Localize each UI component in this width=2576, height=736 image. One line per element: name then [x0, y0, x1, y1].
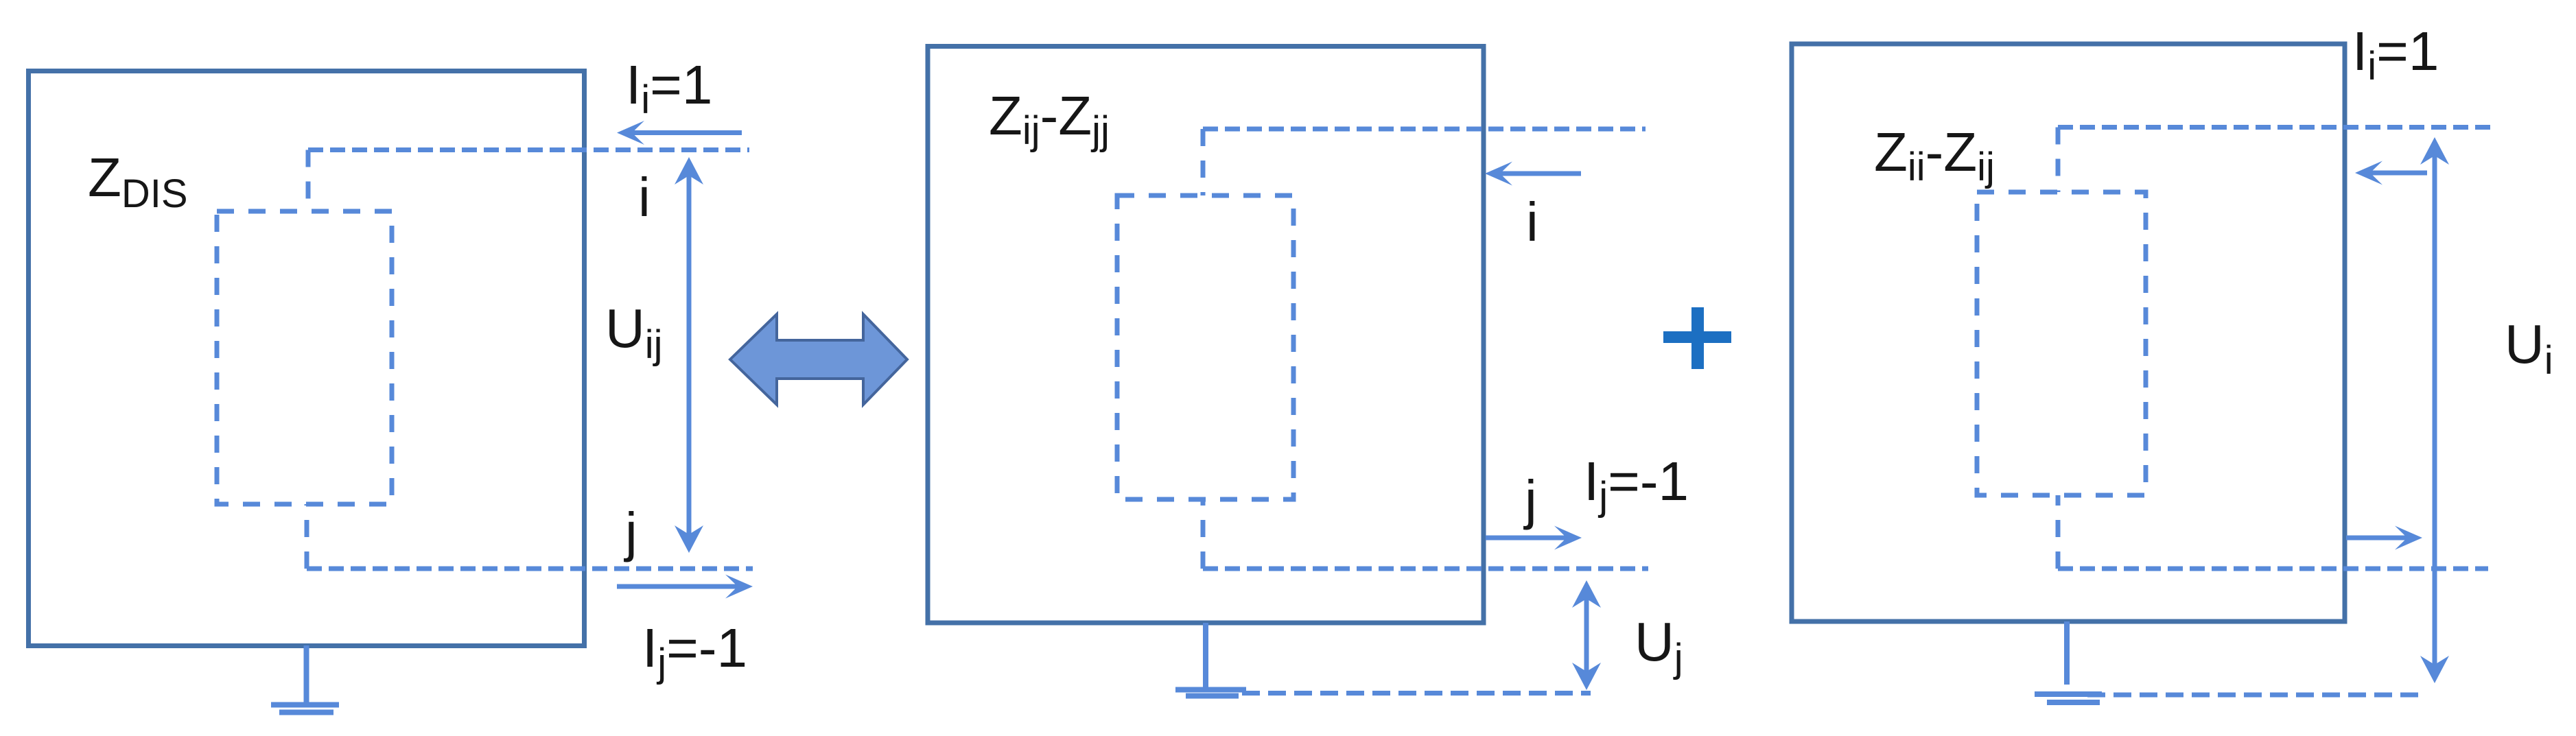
current arrow Ij box 1 [617, 584, 738, 589]
wire node j (dashed) box 3 [2056, 495, 2061, 569]
equivalence double arrow [730, 314, 907, 405]
current arrow i box 3 [2369, 171, 2427, 176]
inner dashed sub-network box 3 [1977, 192, 2146, 495]
wire node i (dashed) box 2 [1203, 127, 1646, 132]
wire ground reference (dashed) box 3 [2087, 693, 2424, 698]
inner dashed sub-network box 1 [217, 211, 392, 504]
current arrow j box 2 [1486, 536, 1567, 541]
svg-text:j: j [1523, 469, 1537, 530]
voltage arrow U_i [2433, 154, 2437, 667]
box Z_DIS outline [29, 71, 585, 646]
voltage arrow U_j [1584, 597, 1589, 674]
current arrow i box 2 [1499, 171, 1581, 176]
wire node i (dashed) box 3 [2058, 125, 2492, 130]
svg-text:Ii=1: Ii=1 [2352, 21, 2439, 88]
voltage arrow U_ij [687, 173, 692, 537]
wire node j (dashed) box 2 [1201, 499, 1206, 569]
svg-text:j: j [624, 501, 637, 562]
svg-text:Zii-Zij: Zii-Zij [1874, 121, 1995, 189]
wire ground reference (dashed) box 2 [1242, 691, 1591, 696]
svg-text:Ii=1: Ii=1 [626, 54, 712, 122]
current arrow Ii box 1 [631, 130, 742, 135]
ground box 3 [2035, 621, 2102, 702]
svg-text:i: i [1526, 191, 1538, 252]
box Zii-Zij outline [1792, 44, 2345, 621]
ground box 1 [271, 645, 339, 713]
svg-text:i: i [638, 167, 651, 228]
plus sign [1663, 307, 1731, 369]
box Zij-Zjj outline [928, 47, 1484, 624]
ground box 2 [1175, 623, 1246, 696]
wire node i (dashed) box 1 [308, 147, 749, 152]
inner dashed sub-network box 2 [1117, 195, 1293, 499]
wire node j (dashed) box 1 [305, 504, 309, 569]
svg-text:Zij-Zjj: Zij-Zjj [989, 85, 1110, 153]
current arrow j box 3 [2346, 536, 2408, 541]
